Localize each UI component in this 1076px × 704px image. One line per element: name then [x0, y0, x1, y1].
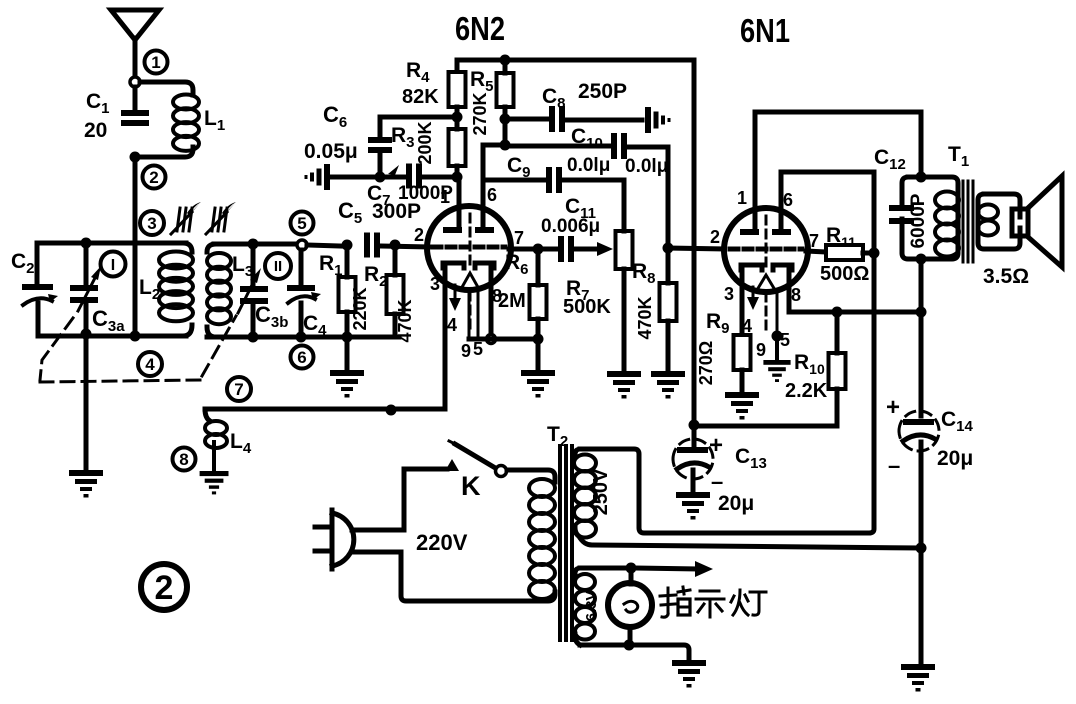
junction	[81, 238, 92, 249]
wire R6 bottom	[536, 319, 541, 339]
electrolytic capacitor C14 20u	[899, 411, 939, 451]
svg-text:3: 3	[724, 284, 734, 304]
wire	[133, 157, 138, 336]
svg-text:500Ω: 500Ω	[820, 263, 869, 285]
wire R3 bottom	[455, 166, 460, 177]
svg-text:5: 5	[473, 339, 483, 359]
gang section marker II	[265, 253, 291, 279]
wire C8 to chassis	[567, 118, 642, 123]
volume wiper arrow	[597, 242, 613, 256]
wire down to C14	[919, 312, 924, 416]
junction	[772, 331, 783, 342]
wire R1 top	[345, 245, 350, 277]
wire R6 top	[536, 249, 541, 285]
C3a tuning arrow	[78, 266, 101, 311]
6N2 plate electrodes	[443, 227, 494, 233]
node marker 7	[227, 377, 251, 401]
ground (C14)	[901, 664, 935, 692]
wire tank2 bottom	[207, 335, 399, 340]
wire	[299, 250, 304, 285]
svg-text:+: +	[709, 432, 723, 459]
svg-text:3: 3	[430, 274, 440, 294]
junction	[916, 254, 927, 265]
6N2 heater	[461, 214, 479, 330]
6N1 pin numbers	[710, 188, 819, 360]
6N2 pin 5 lead	[477, 289, 480, 339]
svg-text:6000P: 6000P	[908, 193, 929, 248]
antenna	[111, 10, 159, 40]
node marker 3	[140, 211, 164, 235]
junction	[916, 307, 927, 318]
resistor R6 2M	[530, 285, 547, 319]
svg-text:220V: 220V	[416, 530, 468, 555]
transformer T2 core	[560, 446, 572, 640]
wire pin7	[509, 247, 556, 252]
inductor L3 bottom bend	[207, 327, 216, 337]
capacitor C9 0.01u	[546, 167, 562, 193]
ground (R8)	[651, 371, 685, 399]
trimmer capacitor C4	[287, 285, 321, 303]
ground (C13)	[676, 492, 710, 520]
capacitor C6 0.05u	[368, 137, 392, 153]
svg-text:270K: 270K	[470, 92, 490, 135]
T1 secondary loop	[978, 194, 1020, 249]
inductor L4 coil	[205, 421, 227, 448]
6N1 pin 1 lead	[753, 112, 758, 229]
svg-text:20μ: 20μ	[718, 492, 754, 515]
wire R2 bottom	[393, 314, 398, 337]
wire to C10	[505, 144, 611, 149]
junction	[500, 55, 511, 66]
junction	[500, 114, 511, 125]
indicator lamp	[608, 568, 652, 645]
wire to C8	[505, 117, 549, 122]
ganged tuning dashed link	[40, 316, 236, 382]
svg-text:200K: 200K	[415, 121, 435, 164]
wire tank2 top	[214, 242, 297, 247]
inductor L1 loop wire	[140, 82, 193, 95]
wire antenna down	[133, 38, 138, 77]
label indicator lamp (Chinese)	[660, 587, 766, 617]
svg-text:470K: 470K	[635, 296, 655, 339]
wire C6 bottom	[378, 153, 383, 177]
figure number 2	[141, 564, 187, 610]
capacitor C5 300P	[364, 233, 380, 258]
wire C11 to wiper	[576, 247, 598, 252]
capacitor C12 6000P with T1 primary loop	[902, 177, 958, 259]
svg-text:7: 7	[809, 231, 819, 251]
6N1 plate electrodes	[740, 229, 791, 235]
transformer T2 primary coil	[529, 479, 555, 599]
wire to C13	[692, 425, 697, 447]
inductor L1 coil	[173, 95, 199, 151]
wire tank1 top	[37, 241, 186, 246]
ground (R7)	[607, 371, 641, 399]
svg-text:6: 6	[487, 185, 497, 205]
resistor R5 270K	[497, 73, 514, 107]
variable capacitor C3b	[240, 286, 268, 304]
svg-text:6N2: 6N2	[455, 10, 505, 47]
adjustment symbol 2	[206, 202, 236, 234]
wire C14 lower	[919, 442, 924, 548]
ground (C3a rotor)	[69, 470, 103, 498]
node marker 8	[173, 448, 196, 471]
svg-text:500K: 500K	[563, 296, 611, 318]
wire 250V bottom to C14 node	[580, 538, 921, 548]
wire R2 top	[393, 245, 398, 275]
capacitor C1	[121, 110, 149, 126]
wire C9 to R7 top	[564, 178, 624, 183]
6N1 pin 5 lead	[776, 290, 779, 336]
wire to ground	[345, 337, 350, 370]
junction	[916, 543, 927, 554]
resistor R8 470K	[660, 283, 677, 321]
6N1 grid (dashed)	[730, 247, 802, 252]
wire R8 top	[666, 248, 671, 283]
wire R1 bottom	[345, 312, 350, 337]
6N2 pin 1 lead	[457, 177, 462, 227]
T2 secondary 250V winding	[575, 449, 580, 537]
svg-text:2: 2	[155, 569, 174, 607]
node marker 6	[291, 346, 314, 369]
C12 plates	[889, 205, 914, 224]
inductor L2 coil	[159, 252, 193, 322]
wire C14 to ground	[919, 548, 924, 664]
wire C7 to plate node	[424, 175, 457, 180]
wire gnd line	[331, 175, 406, 180]
node marker 1	[145, 51, 168, 74]
6N1 pin 8 lead	[789, 270, 918, 312]
svg-text:9: 9	[461, 341, 471, 361]
transformer T1 primary coil	[935, 192, 959, 257]
wire C13 to ground	[691, 470, 696, 492]
resistor R4 82K	[449, 72, 466, 107]
wire R7 bottom	[622, 269, 627, 371]
svg-text:5: 5	[297, 214, 306, 233]
wire	[36, 303, 41, 336]
node marker 5	[291, 212, 314, 235]
T2 primary bottom bend	[548, 592, 555, 601]
inductor L2 bottom bend	[183, 325, 192, 336]
inductor L3 top bend	[207, 244, 216, 252]
capacitor C8 250P	[549, 106, 565, 132]
node marker 4	[138, 352, 162, 376]
terminal node 1 (open circle)	[130, 77, 140, 87]
wire pin7 to R11	[806, 251, 826, 252]
resistor R3 200K	[449, 129, 466, 166]
svg-text:2: 2	[149, 168, 158, 187]
T1 secondary coil	[978, 205, 998, 236]
wire R9 to ground	[740, 370, 745, 392]
capacitor C10 0.01u	[611, 133, 627, 159]
wire R4-R3 mid to C6	[380, 115, 457, 120]
6N1 cathode electrodes	[741, 265, 792, 270]
speaker	[1012, 176, 1062, 267]
svg-text:4: 4	[145, 355, 155, 374]
wire	[133, 87, 138, 111]
svg-text:1: 1	[151, 53, 160, 72]
ground (R9)	[725, 392, 759, 420]
small mark near C7	[388, 165, 399, 175]
ground (6.3V winding)	[672, 660, 706, 688]
junction	[248, 239, 259, 250]
6N2 pin 9 lead	[468, 289, 471, 339]
potentiometer R7 500K	[616, 231, 633, 269]
junction	[390, 240, 401, 251]
T2 secondary 6.3V winding	[575, 568, 580, 645]
junction	[533, 334, 544, 345]
wire plug top	[352, 469, 404, 530]
junction	[500, 140, 511, 151]
C3b tuning arrow	[238, 268, 261, 313]
inductor L1 bottom wire	[140, 147, 193, 157]
6N2 cathode/heater bus	[469, 337, 538, 342]
svg-text:1000P: 1000P	[398, 183, 453, 204]
svg-text:3.5Ω: 3.5Ω	[983, 265, 1029, 288]
6N2 cathode electrodes	[443, 263, 494, 268]
junction	[130, 331, 141, 342]
chassis ground (left)	[305, 164, 331, 190]
6N1 pin 6 lead	[779, 172, 784, 229]
svg-text:1: 1	[737, 188, 747, 208]
junction	[832, 307, 843, 318]
wire	[307, 245, 341, 246]
junction	[452, 112, 463, 123]
svg-text:9: 9	[756, 340, 766, 360]
wire 6.3V bottom	[580, 645, 689, 660]
ground (heater pin5)	[763, 360, 790, 382]
wire R11 to riser	[863, 251, 874, 256]
wire R3 top	[455, 107, 460, 129]
wire	[84, 243, 89, 285]
junction	[869, 248, 880, 259]
junction	[296, 332, 307, 343]
6N2 pin 8 lead	[489, 268, 494, 335]
6N2 pin numbers	[414, 185, 524, 361]
junction	[248, 332, 259, 343]
wire C3a to ground	[84, 334, 89, 470]
svg-text:II: II	[274, 258, 282, 275]
svg-text:7: 7	[234, 380, 243, 399]
svg-text:K: K	[461, 471, 481, 501]
svg-text:+: +	[886, 394, 900, 421]
6N1 pin 3 lead	[740, 270, 745, 335]
wire	[35, 243, 40, 284]
svg-text:0.0lμ: 0.0lμ	[625, 156, 668, 177]
svg-text:2.2K: 2.2K	[785, 380, 828, 402]
junction	[624, 640, 635, 651]
T2 250V coil	[574, 455, 596, 538]
svg-text:20: 20	[84, 119, 107, 142]
junction	[386, 405, 397, 416]
wire grid into tube	[381, 246, 428, 247]
junction	[81, 329, 92, 340]
wire pin6 loop	[781, 172, 874, 253]
svg-text:6N1: 6N1	[740, 12, 790, 49]
capacitor C11 0.006u	[558, 236, 574, 262]
resistor R10 2.2K	[829, 353, 846, 389]
vacuum tube 6N1 envelope	[724, 208, 808, 292]
6N1 pin 4 heater arrow	[747, 287, 759, 310]
switch K contact (open circle)	[496, 466, 507, 477]
ground (R6)	[521, 370, 555, 398]
svg-text:6: 6	[297, 348, 306, 367]
junction	[689, 420, 700, 431]
resistor R1 220K	[339, 277, 356, 312]
6N2 grid (dashed)	[433, 245, 505, 250]
svg-text:8: 8	[179, 450, 188, 469]
ground (L4)	[200, 471, 229, 494]
svg-text:250P: 250P	[578, 80, 627, 103]
wire R8 bottom	[666, 321, 671, 371]
resistor R11 500 (horizontal)	[826, 245, 863, 260]
6N2 pin 3 lead down	[443, 268, 448, 409]
wire T1 bottom down	[919, 259, 924, 312]
junction	[375, 172, 386, 183]
inductor L4 top bend	[205, 409, 210, 421]
wire cathode to L4	[205, 407, 445, 412]
wire R7 top	[622, 180, 627, 231]
wire R10 bottom to C13 node	[694, 389, 837, 426]
junction	[342, 240, 353, 251]
chassis ground (C8)	[645, 107, 671, 133]
svg-text:I: I	[111, 257, 115, 274]
node marker 2	[143, 166, 166, 189]
wire tank1 bottom	[38, 334, 186, 339]
junction	[663, 243, 674, 254]
gang section marker I	[101, 252, 126, 277]
junction	[452, 172, 463, 183]
mains plug	[315, 510, 354, 569]
wire 6.3V top	[580, 566, 631, 571]
svg-text:4: 4	[447, 315, 457, 335]
wire L4 to ground	[212, 442, 216, 471]
svg-text:–: –	[888, 453, 900, 478]
wire plug bottom	[353, 552, 546, 601]
wire B+ top rail	[457, 60, 694, 72]
svg-text:2: 2	[710, 227, 720, 247]
svg-text:3: 3	[147, 214, 156, 233]
6N2 pin 4 heater arrow	[449, 285, 461, 311]
svg-text:0.0lμ: 0.0lμ	[567, 155, 610, 176]
wire B+ riser	[580, 253, 874, 533]
junction	[130, 152, 141, 163]
svg-text:0.05μ: 0.05μ	[304, 140, 358, 163]
terminal (open circle) pin8	[487, 335, 496, 344]
svg-text:8: 8	[791, 285, 801, 305]
heater supply arrow	[631, 561, 713, 577]
inductor L3 coil	[207, 253, 231, 324]
wire C10 to 6N1 grid	[629, 147, 668, 248]
junction	[916, 172, 927, 183]
wire 6N1 grid line	[668, 248, 724, 249]
resistor R2 470K	[387, 275, 404, 314]
wire	[251, 304, 256, 337]
svg-text:20μ: 20μ	[937, 447, 973, 470]
svg-text:82K: 82K	[402, 86, 439, 108]
wire R5 top	[503, 60, 508, 73]
adjustment symbol 1	[171, 202, 201, 234]
wire C6 top	[378, 117, 383, 140]
wire pin5 to ground	[775, 336, 779, 360]
wire switch to T2	[507, 470, 555, 482]
wire plate to T1 top	[755, 112, 921, 177]
wire	[251, 244, 256, 286]
svg-text:220K: 220K	[350, 287, 370, 330]
capacitor C7 1000P	[406, 164, 422, 189]
vacuum tube 6N2 envelope	[427, 206, 511, 290]
wire to ground	[536, 339, 541, 370]
svg-text:0.006μ: 0.006μ	[541, 216, 600, 237]
svg-text:6.3V: 6.3V	[583, 591, 600, 622]
transformer T1 core	[963, 181, 973, 262]
junction	[626, 563, 637, 574]
terminal node 5 (open circle)	[297, 240, 307, 250]
ground (R1)	[330, 370, 364, 398]
resistor R9 270	[734, 335, 751, 370]
wire R5 bottom	[503, 107, 508, 146]
wire C9 branch	[483, 178, 546, 183]
wire pin6 branch	[483, 145, 505, 227]
inductor L2 top bend	[183, 243, 192, 252]
svg-text:250V: 250V	[590, 468, 612, 515]
svg-text:7: 7	[514, 228, 524, 248]
electrolytic capacitor C13 20u	[673, 439, 713, 479]
junction	[533, 244, 544, 255]
svg-text:270Ω: 270Ω	[696, 341, 716, 385]
wire	[84, 303, 89, 334]
svg-text:2M: 2M	[498, 290, 526, 312]
switch K	[404, 441, 497, 471]
svg-text:6: 6	[783, 190, 793, 210]
svg-text:470K: 470K	[395, 299, 415, 342]
svg-text:–: –	[711, 469, 723, 494]
wire	[299, 303, 304, 337]
6N1 heater	[757, 216, 775, 330]
junction	[342, 332, 353, 343]
variable capacitor C3a	[70, 285, 98, 303]
6N2 pin 6 lead	[481, 146, 486, 227]
T2 6.3V coil	[575, 574, 595, 640]
trimmer capacitor C2	[22, 284, 58, 305]
wire B+ drop	[692, 60, 697, 425]
wire R10 top	[835, 312, 840, 353]
svg-text:2: 2	[414, 225, 424, 245]
